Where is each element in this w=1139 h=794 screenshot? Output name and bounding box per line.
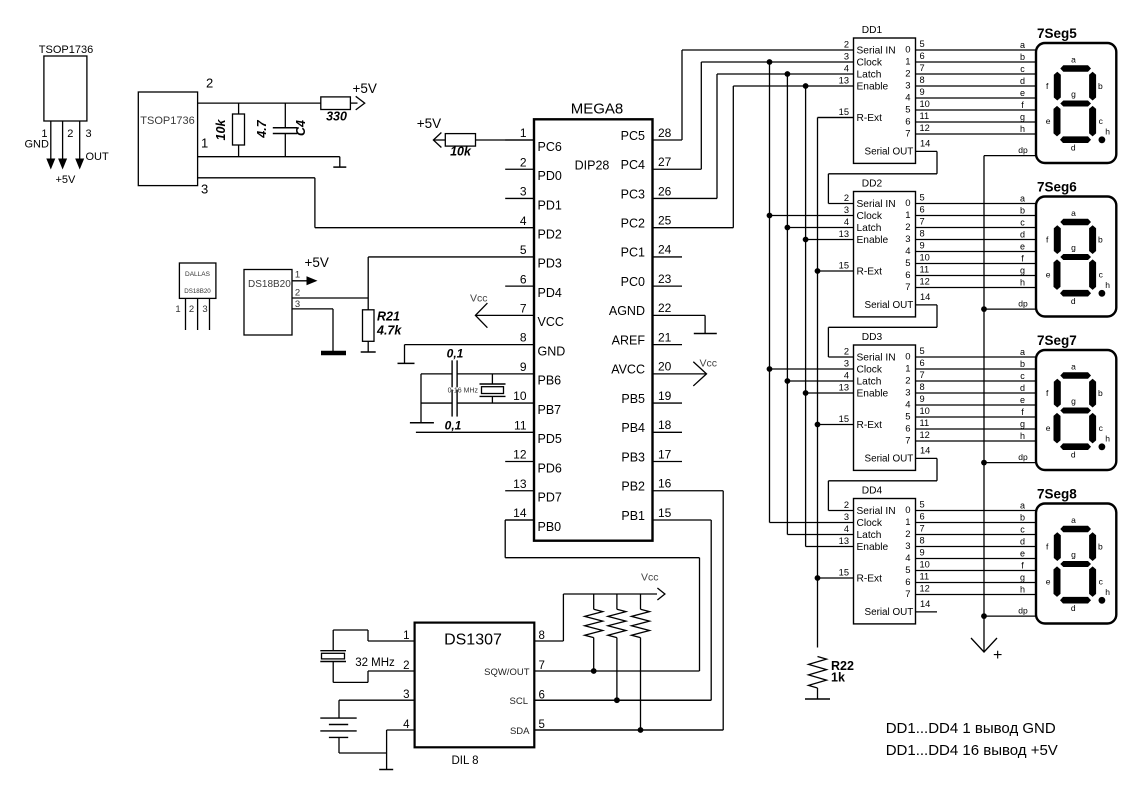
wire dp bus to 7Seg8: [984, 605, 1036, 616]
svg-text:a: a: [1071, 515, 1076, 525]
svg-text:3: 3: [905, 541, 910, 552]
ground at TSOP pin1: [333, 157, 346, 167]
svg-text:7Seg8: 7Seg8: [1037, 487, 1077, 502]
wire DD4 output 4 (pin 9) to 7Seg8 segment e: [916, 548, 1037, 559]
7Seg8 segment d: [1060, 597, 1091, 604]
MEGA8 pin 6 PD4: [505, 272, 562, 300]
common anode arrow (down): [971, 638, 1002, 664]
7Seg6 segment g: [1060, 254, 1091, 260]
wire DD1 output 3 (pin 8) to 7Seg5 segment d: [916, 75, 1037, 86]
svg-text:6: 6: [905, 423, 910, 434]
svg-text:e: e: [1020, 88, 1025, 98]
wire DD3 output 4 (pin 9) to 7Seg7 segment e: [916, 394, 1037, 405]
sensor package DALLAS DS18B20 (pinout symbol): [175, 263, 216, 330]
svg-text:+5V: +5V: [353, 81, 377, 96]
7Seg7 segment e: [1054, 413, 1061, 444]
7Seg5 segment a: [1060, 65, 1091, 72]
svg-text:b: b: [1020, 359, 1025, 369]
svg-text:PB0: PB0: [538, 520, 562, 534]
svg-text:Serial OUT: Serial OUT: [865, 146, 914, 157]
wire enable bus to DD3: [806, 392, 854, 394]
7Seg7 segment c: [1089, 413, 1096, 444]
MEGA8 pin 1 PC6: [505, 126, 562, 154]
wire latch bus to DD4: [787, 534, 853, 536]
svg-text:DD3: DD3: [862, 332, 883, 343]
svg-text:PB3: PB3: [621, 450, 645, 464]
svg-text:d: d: [1020, 383, 1025, 393]
svg-text:5: 5: [520, 243, 527, 257]
junction R-Ext bus DD4: [815, 575, 821, 581]
svg-text:c: c: [1020, 525, 1025, 535]
svg-text:b: b: [1020, 513, 1025, 523]
svg-text:PC5: PC5: [621, 129, 645, 143]
svg-text:e: e: [1020, 395, 1025, 405]
svg-text:TSOP1736: TSOP1736: [140, 115, 194, 127]
junction DS1307 pull-up 3: [638, 727, 644, 733]
junction dp bus 7Seg6: [981, 306, 987, 312]
svg-text:DD1: DD1: [862, 25, 883, 36]
wire battery to DS1307 pin4: [339, 730, 415, 753]
wire enable bus to DD4: [806, 546, 854, 548]
wire DD3 output 2 (pin 7) to 7Seg7 segment c: [916, 370, 1037, 381]
svg-text:PD2: PD2: [538, 227, 562, 241]
svg-text:5: 5: [905, 411, 910, 422]
svg-text:2: 2: [189, 304, 194, 315]
MEGA8 pin 25 PC2: [621, 213, 672, 230]
junction enable bus DD1: [803, 83, 809, 89]
svg-text:7: 7: [905, 282, 910, 293]
wire clock bus to DD3: [770, 368, 854, 370]
Vcc arrow (DS1307 supply): [641, 572, 665, 601]
svg-text:10: 10: [920, 99, 930, 109]
wire R-Ext bus to DD3: [818, 424, 854, 426]
svg-text:4: 4: [844, 371, 849, 381]
wire DS1307 pin3 to battery: [339, 700, 415, 718]
7Seg8 segment f: [1054, 532, 1061, 561]
svg-text:h: h: [1020, 431, 1025, 441]
wire PD5: [416, 431, 534, 433]
crystal 32 MHz: [320, 651, 395, 669]
capacitor 0,1 (top, on PB6): [447, 347, 464, 388]
svg-text:11: 11: [920, 111, 930, 121]
MEGA8 pin 4 PD2: [520, 214, 562, 242]
svg-text:9: 9: [920, 241, 925, 251]
pin 3 OUT lead with arrow: [75, 121, 109, 170]
svg-text:c: c: [1099, 116, 1104, 126]
microcontroller MEGA8 (DIP28): [534, 101, 653, 541]
MEGA8 pin 14 PB0: [505, 506, 561, 534]
pull-up resistor 1 (zigzag) on DS1307 bus: [585, 594, 603, 671]
svg-text:5: 5: [920, 346, 925, 356]
svg-text:13: 13: [839, 383, 849, 393]
wire DD4 output 1 (pin 6) to 7Seg8 segment b: [916, 512, 1037, 523]
7Seg6 decimal point: [1099, 290, 1106, 297]
7Seg5 segment c: [1089, 106, 1096, 136]
svg-text:3: 3: [844, 205, 849, 215]
svg-text:6: 6: [920, 51, 925, 61]
svg-text:TSOP1736: TSOP1736: [39, 44, 93, 56]
svg-text:6: 6: [905, 270, 910, 281]
svg-text:0: 0: [905, 351, 910, 362]
MEGA8 pin 19 PB5: [621, 389, 682, 406]
wire PD2 from TSOP output: [315, 227, 534, 229]
7Seg8 segment g: [1060, 561, 1091, 567]
backup battery: [320, 718, 356, 737]
svg-text:g: g: [1071, 242, 1076, 252]
wire dp bus to 7Seg7: [984, 452, 1036, 463]
7Seg5 segment g: [1060, 101, 1091, 107]
svg-text:PD6: PD6: [538, 461, 562, 475]
svg-text:28: 28: [658, 126, 672, 140]
wire DD1 output 6 (pin 11) to 7Seg5 segment g: [916, 111, 1037, 122]
svg-text:Enable: Enable: [857, 542, 889, 553]
svg-text:b: b: [1020, 52, 1025, 62]
7Seg5 segment d: [1060, 136, 1091, 143]
MEGA8 pin 18 PB4: [621, 418, 682, 435]
svg-text:0: 0: [905, 505, 910, 516]
resistor R21 4.7k: [361, 298, 376, 352]
7Seg5 segment e: [1054, 106, 1061, 136]
svg-text:10: 10: [920, 406, 930, 416]
7Seg7 decimal point: [1099, 443, 1106, 450]
capacitor 0,1 (bottom, on PB7): [445, 390, 462, 433]
svg-text:2: 2: [905, 68, 910, 79]
svg-text:c: c: [1099, 270, 1104, 280]
svg-text:3: 3: [844, 512, 849, 522]
svg-text:R-Ext: R-Ext: [857, 113, 883, 124]
svg-text:c: c: [1099, 423, 1104, 433]
wire DD2 output 4 (pin 9) to 7Seg6 segment e: [916, 241, 1037, 252]
svg-text:DD2: DD2: [862, 179, 883, 190]
RTC DS1307 (DIL 8): [415, 623, 535, 767]
junction dp bus 7Seg8: [981, 613, 987, 619]
svg-text:PB1: PB1: [621, 509, 645, 523]
wire DD4 Serial OUT stub: [916, 611, 938, 613]
MEGA8 pin 27 PC4: [621, 155, 672, 172]
svg-text:d: d: [1071, 450, 1076, 460]
svg-text:8: 8: [920, 382, 925, 392]
svg-text:Latch: Latch: [857, 69, 882, 80]
svg-text:PB4: PB4: [621, 421, 645, 435]
svg-text:24: 24: [658, 243, 672, 257]
wire TSOP pin3 output to MEGA8 PD2: [198, 178, 315, 228]
wire DD1 output 4 (pin 9) to 7Seg5 segment e: [916, 87, 1037, 98]
wire DS1307 pin8 to Vcc: [534, 594, 657, 641]
svg-text:Vcc: Vcc: [470, 293, 488, 305]
7Seg6 segment letters: [1046, 208, 1111, 306]
svg-text:PD4: PD4: [538, 286, 562, 300]
svg-text:2: 2: [905, 222, 910, 233]
svg-text:GND: GND: [25, 139, 50, 151]
svg-text:Clock: Clock: [857, 57, 883, 68]
svg-text:27: 27: [658, 155, 672, 169]
svg-text:2: 2: [905, 375, 910, 386]
wire DD4 output 7 (pin 12) to 7Seg8 segment h: [916, 584, 1037, 595]
junction clock bus DD3: [767, 366, 773, 372]
svg-text:Enable: Enable: [857, 81, 889, 92]
svg-text:4: 4: [403, 719, 410, 731]
svg-text:b: b: [1098, 235, 1103, 245]
svg-text:3: 3: [905, 80, 910, 91]
shift register DD4: [854, 486, 916, 624]
svg-text:10: 10: [513, 389, 527, 403]
svg-text:1: 1: [201, 136, 208, 151]
junction enable bus DD3: [803, 390, 809, 396]
svg-text:2: 2: [403, 660, 409, 672]
shift register DD3: [854, 332, 916, 470]
7Seg8 segment a: [1060, 526, 1091, 533]
svg-text:6: 6: [520, 272, 527, 286]
wire TSOP pin1 (ground rail): [198, 156, 340, 158]
svg-text:13: 13: [513, 477, 527, 491]
7-segment display 7Seg6: [1036, 180, 1116, 317]
svg-text:R-Ext: R-Ext: [857, 420, 883, 431]
svg-text:15: 15: [839, 261, 849, 271]
svg-text:SQW/OUT: SQW/OUT: [484, 667, 530, 678]
svg-text:12: 12: [920, 584, 930, 594]
svg-text:14: 14: [920, 292, 930, 302]
7Seg7 segment d: [1060, 443, 1091, 450]
wire PB1 to DS1307 SCL: [534, 520, 711, 700]
svg-text:9: 9: [920, 87, 925, 97]
wire DD2 output 3 (pin 8) to 7Seg6 segment d: [916, 229, 1037, 240]
svg-text:10: 10: [920, 560, 930, 570]
MEGA8 pin 2 PD0: [505, 155, 562, 183]
svg-text:Latch: Latch: [857, 223, 882, 234]
svg-text:1: 1: [175, 304, 180, 315]
svg-text:5: 5: [905, 258, 910, 269]
svg-text:e: e: [1046, 116, 1051, 126]
svg-text:2: 2: [905, 529, 910, 540]
svg-text:a: a: [1020, 347, 1025, 357]
svg-text:7Seg5: 7Seg5: [1037, 26, 1077, 41]
svg-text:Latch: Latch: [857, 530, 882, 541]
svg-text:VCC: VCC: [538, 315, 564, 329]
MEGA8 pin 13 PD7: [505, 477, 562, 505]
svg-text:4: 4: [905, 92, 910, 103]
svg-text:+5V: +5V: [56, 174, 77, 186]
7Seg7 segment g: [1060, 408, 1091, 414]
+5V arrow at PC6: [417, 116, 442, 148]
wire PB0 to DS1307 SQW/OUT: [505, 520, 699, 671]
wire DD1 output 7 (pin 12) to 7Seg5 segment h: [916, 123, 1037, 134]
wire DS1307 pin6 SCL stub: [534, 699, 711, 701]
ground at AGND pin 22: [653, 315, 717, 333]
svg-text:Latch: Latch: [857, 376, 882, 387]
svg-text:3: 3: [201, 182, 208, 197]
wire DD3 output 7 (pin 12) to 7Seg7 segment h: [916, 430, 1037, 441]
svg-text:AVCC: AVCC: [611, 363, 645, 377]
svg-text:DALLAS: DALLAS: [185, 271, 211, 278]
svg-text:DIP28: DIP28: [575, 159, 610, 173]
MEGA8 pin 15 PB1: [621, 506, 671, 523]
+5V arrow (IR supply): [353, 81, 377, 110]
MEGA8 pin 8 GND: [520, 331, 565, 359]
svg-text:5: 5: [905, 104, 910, 115]
7Seg6 segment e: [1054, 259, 1061, 290]
7Seg6 segment f: [1054, 225, 1061, 254]
7Seg6 segment c: [1089, 259, 1096, 290]
svg-text:19: 19: [658, 389, 672, 403]
clock bus vertical: [769, 62, 771, 523]
svg-text:d: d: [1020, 230, 1025, 240]
7Seg5 segment letters: [1046, 55, 1111, 153]
pull-up resistor 2 (zigzag) on DS1307 bus: [608, 594, 626, 700]
svg-text:d: d: [1020, 76, 1025, 86]
svg-text:4: 4: [520, 214, 527, 228]
svg-text:14: 14: [513, 506, 527, 520]
svg-text:7: 7: [520, 301, 527, 315]
svg-text:1: 1: [905, 517, 910, 528]
svg-text:SDA: SDA: [510, 726, 530, 737]
svg-text:a: a: [1071, 55, 1076, 65]
pin 1 GND lead with arrow: [25, 121, 56, 170]
svg-text:4: 4: [905, 246, 910, 257]
svg-text:0: 0: [905, 198, 910, 209]
svg-text:b: b: [1098, 388, 1103, 398]
wire DD1 output 5 (pin 10) to 7Seg5 segment f: [916, 99, 1037, 110]
svg-text:1: 1: [905, 363, 910, 374]
wire DD2 output 2 (pin 7) to 7Seg6 segment c: [916, 217, 1037, 228]
svg-text:PC4: PC4: [621, 158, 645, 172]
svg-text:g: g: [1071, 89, 1076, 99]
DS18B20 pin 1 +5V arrow: [292, 255, 329, 285]
junction clock bus DD2: [767, 213, 773, 219]
svg-text:26: 26: [658, 184, 672, 198]
svg-text:e: e: [1046, 577, 1051, 587]
junction latch bus DD1: [785, 71, 791, 77]
wire PC5 to DD1 Serial IN: [682, 50, 854, 140]
svg-text:d: d: [1071, 296, 1076, 306]
svg-text:11: 11: [920, 265, 930, 275]
MEGA8 pin 10 PB7: [513, 389, 561, 417]
svg-text:4: 4: [844, 524, 849, 534]
resistor 10k on PC6 (reset pull-up): [433, 134, 534, 159]
svg-text:3: 3: [520, 185, 527, 199]
wire DD3 output 5 (pin 10) to 7Seg7 segment f: [916, 406, 1037, 417]
svg-text:h: h: [1105, 127, 1110, 137]
svg-text:dp: dp: [1018, 605, 1028, 615]
svg-text:7: 7: [905, 589, 910, 600]
svg-text:16: 16: [658, 477, 672, 491]
7Seg5 decimal point: [1099, 136, 1106, 143]
shift register DD2: [854, 179, 916, 317]
resistor R22 1k (zigzag): [805, 657, 830, 700]
pull-up resistor 3 (zigzag) on DS1307 bus: [632, 594, 650, 730]
svg-text:18: 18: [658, 418, 672, 432]
7Seg5 segment f: [1054, 72, 1061, 101]
wire DD2 Serial OUT to DD3 Serial IN: [828, 305, 937, 357]
svg-text:dp: dp: [1018, 452, 1028, 462]
pin 2 +5V lead with arrow: [56, 121, 77, 186]
svg-text:dp: dp: [1018, 298, 1028, 308]
svg-text:0-16 MHz: 0-16 MHz: [448, 388, 479, 395]
svg-text:10: 10: [920, 253, 930, 263]
wire DD3 output 6 (pin 11) to 7Seg7 segment g: [916, 418, 1037, 429]
svg-text:2: 2: [844, 193, 849, 203]
R-Ext bus vertical: [818, 118, 854, 648]
wire DD3 Serial OUT to DD4 Serial IN: [828, 458, 937, 510]
svg-text:12: 12: [513, 448, 527, 462]
MEGA8 pin 21 AREF: [612, 330, 682, 347]
svg-text:d: d: [1071, 143, 1076, 153]
svg-text:13: 13: [839, 76, 849, 86]
svg-text:7Seg6: 7Seg6: [1037, 180, 1077, 195]
svg-text:2: 2: [844, 500, 849, 510]
svg-text:5: 5: [920, 193, 925, 203]
ground rail for crystal caps: [410, 374, 434, 423]
svg-text:Serial IN: Serial IN: [857, 352, 896, 363]
svg-text:14: 14: [920, 138, 930, 148]
dp common bus vertical: [983, 156, 985, 652]
svg-text:6: 6: [920, 358, 925, 368]
wire R-Ext bus to DD1: [818, 117, 854, 119]
svg-text:g: g: [1020, 573, 1025, 583]
svg-text:R21: R21: [377, 310, 400, 324]
svg-text:+5V: +5V: [305, 255, 329, 270]
svg-text:32 MHz: 32 MHz: [355, 657, 395, 669]
svg-text:5: 5: [920, 500, 925, 510]
svg-text:PC1: PC1: [621, 246, 645, 260]
svg-text:5: 5: [920, 39, 925, 49]
wire clock bus to DD2: [770, 215, 854, 217]
DD4 pin numbers 2,3,4,13,15: [839, 500, 849, 578]
svg-text:g: g: [1071, 549, 1076, 559]
svg-text:e: e: [1020, 549, 1025, 559]
svg-text:11: 11: [514, 418, 527, 432]
svg-text:Clock: Clock: [857, 364, 883, 375]
svg-text:h: h: [1020, 124, 1025, 134]
svg-text:14: 14: [920, 599, 930, 609]
svg-text:a: a: [1020, 194, 1025, 204]
junction latch bus DD2: [785, 225, 791, 231]
svg-text:12: 12: [920, 277, 930, 287]
wire DD4 output 3 (pin 8) to 7Seg8 segment d: [916, 536, 1037, 547]
MEGA8 pin 11 PD5: [514, 418, 562, 446]
svg-text:0,1: 0,1: [447, 347, 464, 361]
svg-text:13: 13: [839, 536, 849, 546]
svg-text:g: g: [1020, 112, 1025, 122]
wire PB6 to crystal: [421, 373, 534, 375]
svg-text:PC3: PC3: [621, 187, 645, 201]
svg-text:SCL: SCL: [510, 696, 528, 707]
svg-text:15: 15: [839, 107, 849, 117]
svg-text:PD3: PD3: [538, 257, 562, 271]
7-segment display 7Seg7: [1036, 333, 1116, 470]
svg-text:4: 4: [905, 399, 910, 410]
MEGA8 pin 12 PD6: [505, 448, 562, 476]
svg-text:DS1307: DS1307: [444, 632, 502, 649]
resistor 10k (IR pull-up, vertical): [233, 103, 245, 157]
7Seg8 segment e: [1054, 566, 1061, 597]
wire DD2 output 6 (pin 11) to 7Seg6 segment g: [916, 265, 1037, 276]
svg-text:Vcc: Vcc: [641, 572, 659, 584]
crystal 0-16 MHz: [448, 374, 506, 403]
svg-text:Enable: Enable: [857, 235, 889, 246]
7Seg6 segment d: [1060, 290, 1091, 297]
svg-text:a: a: [1020, 40, 1025, 50]
junction dp bus 7Seg7: [981, 460, 987, 466]
wire DD3 output 0 (pin 5) to 7Seg7 segment a: [916, 346, 1037, 357]
wire DD1 Serial OUT to DD2 Serial IN: [828, 151, 937, 203]
svg-text:Serial IN: Serial IN: [857, 506, 896, 517]
svg-text:3: 3: [844, 52, 849, 62]
svg-text:7: 7: [920, 217, 925, 227]
svg-text:g: g: [1020, 419, 1025, 429]
svg-text:DIL 8: DIL 8: [451, 755, 478, 767]
svg-text:4: 4: [844, 217, 849, 227]
svg-text:R-Ext: R-Ext: [857, 266, 883, 277]
